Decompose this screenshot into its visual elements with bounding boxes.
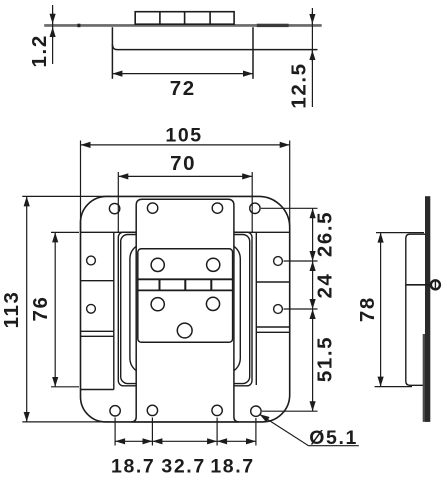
left flap divider — [81, 280, 114, 282]
svg-text:72: 72 — [170, 77, 196, 100]
dim 78 line — [380, 233, 382, 387]
hinge knuckle strip (4 segments) — [135, 12, 234, 25]
strap top hole right — [212, 203, 222, 213]
flap top edge line full width — [81, 231, 290, 233]
latch hole top-left — [151, 258, 164, 271]
svg-text:105: 105 — [165, 124, 202, 146]
svg-text:70: 70 — [170, 152, 196, 175]
keeper pin center tick — [434, 281, 436, 288]
darker flange segment right — [257, 24, 289, 27]
dish body right edge + ext line — [252, 27, 254, 79]
left flap double line — [81, 330, 114, 332]
right flap divider — [256, 281, 289, 283]
flange plate edge-on (1.2 thick) — [44, 24, 322, 27]
svg-text:24: 24 — [313, 272, 336, 298]
latch hole top-right — [207, 258, 220, 271]
hinge band top line — [138, 278, 233, 280]
hinge tick 1 — [159, 279, 161, 290]
dim 70 line — [118, 175, 252, 177]
right flap double line — [256, 326, 289, 328]
plate edge-on bar — [425, 196, 430, 422]
dim 32.7 line — [152, 440, 217, 442]
svg-text:Ø5.1: Ø5.1 — [309, 427, 358, 449]
center strap (lid leaf) — [131, 199, 239, 422]
right flap hole lower — [274, 305, 283, 314]
svg-text:18.7: 18.7 — [210, 455, 254, 477]
hinge tick 3 — [210, 279, 212, 290]
butterfly latch box — [138, 249, 233, 343]
left flap hole upper — [87, 256, 96, 265]
dim 105 line — [81, 144, 290, 146]
svg-text:76: 76 — [29, 295, 52, 321]
knuckle divider — [159, 12, 161, 25]
bottom strap hole left — [147, 405, 157, 415]
left flap right edge — [113, 232, 115, 389]
dim 105 ext lines — [80, 141, 82, 233]
svg-text:78: 78 — [356, 296, 379, 322]
front view — [81, 196, 290, 422]
knuckle divider — [184, 12, 186, 25]
latch hole mid-right — [206, 297, 219, 310]
strap behind plate (gray, wider at bottom) — [423, 334, 426, 422]
dim 18.7b line — [217, 440, 256, 442]
right flap left edge — [255, 232, 257, 385]
corner hole bottom-left — [110, 406, 120, 416]
svg-text:18.7: 18.7 — [111, 455, 155, 477]
top view: latch profile seen from above — [44, 12, 322, 79]
svg-text:1.2: 1.2 — [28, 34, 51, 67]
right chain ext lines — [261, 207, 318, 209]
dim 72 line — [112, 73, 253, 75]
dim 1.2 line — [52, 5, 54, 64]
corner hole top-right — [250, 203, 260, 213]
dish middle rect — [121, 235, 250, 384]
latch hole mid-left — [151, 298, 164, 311]
tick on flange left — [77, 24, 80, 28]
dim 113 line — [26, 196, 28, 422]
svg-text:32.7: 32.7 — [161, 455, 205, 477]
svg-text:51.5: 51.5 — [313, 336, 336, 382]
svg-text:26.5: 26.5 — [313, 211, 336, 257]
bottom strap hole right — [212, 405, 222, 415]
keeper pin line — [406, 284, 441, 286]
dim 76 line — [54, 232, 56, 386]
bottom chain ext lines — [114, 418, 116, 446]
corner hole bottom-right — [251, 406, 261, 416]
svg-text:12.5: 12.5 — [287, 62, 310, 108]
dim 26.5 line — [312, 208, 314, 261]
dish body left edge + ext line — [111, 27, 113, 79]
dim 18.7 line — [115, 440, 152, 442]
latch hole bottom-center — [177, 323, 192, 338]
hinge tick 2 — [184, 279, 186, 290]
dim 12.5 arrows — [311, 12, 313, 24]
dia leader — [260, 414, 359, 446]
dimension texts — [0, 34, 379, 477]
dish outer rect — [118, 232, 252, 386]
knuckle divider — [209, 12, 211, 25]
dim 76 ext lines — [51, 231, 79, 233]
dim 51.5 line — [312, 309, 314, 411]
strap top hole left — [147, 203, 157, 213]
dim 78 ext lines — [376, 232, 424, 234]
dim 70 ext lines — [117, 172, 119, 232]
dish body bottom edge + 12.5 ext — [112, 45, 317, 50]
dim 12.5 line — [311, 8, 313, 107]
dim 1.2 arrows — [52, 12, 54, 24]
right side view — [406, 196, 441, 422]
dish body side profile — [406, 234, 426, 385]
hinge band bottom line — [138, 289, 233, 291]
dim 113 ext lines — [22, 195, 111, 197]
keeper pin circle — [431, 280, 440, 289]
left flap bottom edge — [81, 389, 114, 391]
left flap hole lower — [87, 304, 96, 313]
mounting plate 105x113 — [81, 196, 290, 422]
right flap hole upper — [274, 257, 283, 266]
dim 24 line — [312, 261, 314, 309]
dish inner rect — [130, 244, 240, 374]
svg-text:113: 113 — [0, 290, 23, 328]
corner hole top-left — [109, 203, 119, 213]
